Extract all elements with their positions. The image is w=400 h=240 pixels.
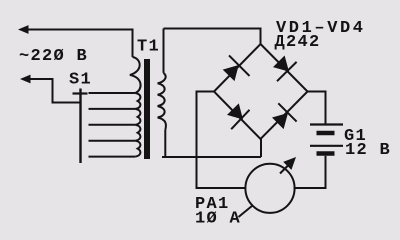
diode VD4 lower-right — [272, 103, 297, 129]
wire bridge bottom to secondary bottom — [162, 156, 261, 158]
transformer T1 secondary winding — [158, 29, 166, 158]
ammeter PA1 needle — [280, 163, 291, 174]
transformer T1 primary winding — [89, 57, 141, 157]
switch S1 contact bar — [73, 92, 88, 94]
battery G1 cell 2 negative plate — [317, 151, 335, 156]
ammeter PA1 body — [245, 164, 294, 213]
svg-text:S1: S1 — [69, 71, 92, 90]
battery G1 cell 2 positive plate — [310, 145, 343, 147]
svg-text:1Ø А: 1Ø А — [195, 210, 241, 229]
arrow AC terminal 1 — [18, 25, 29, 34]
wire bridge bottom corner down — [260, 139, 262, 157]
battery G1 cell 1 positive plate — [310, 123, 343, 125]
wire battery bottom to ammeter right — [294, 156, 326, 188]
wire bridge right corner to battery top — [308, 92, 326, 124]
node bridge diamond — [214, 44, 308, 139]
diode VD2 upper-right — [273, 56, 297, 82]
transformer T1 core — [144, 59, 150, 159]
label pointer to ammeter — [239, 206, 253, 218]
wire secondary top to bridge top — [164, 29, 261, 45]
arrow AC terminal 2 — [20, 75, 31, 84]
svg-text:~22Ø В: ~22Ø В — [19, 47, 88, 66]
diode VD3 lower-left — [227, 103, 250, 129]
svg-text:T1: T1 — [137, 38, 160, 57]
switch S1 blade — [79, 89, 81, 164]
battery G1 cell 1 negative plate — [317, 131, 335, 136]
wire bridge left corner to ammeter left — [197, 92, 246, 189]
svg-text:Д242: Д242 — [275, 33, 321, 52]
wire top AC lead to primary — [26, 30, 133, 58]
ammeter PA1 needle arrowhead — [283, 157, 296, 170]
wire second AC lead to switch — [28, 79, 80, 103]
diode VD1 upper-left — [223, 55, 250, 81]
svg-text:12 В: 12 В — [345, 141, 391, 160]
